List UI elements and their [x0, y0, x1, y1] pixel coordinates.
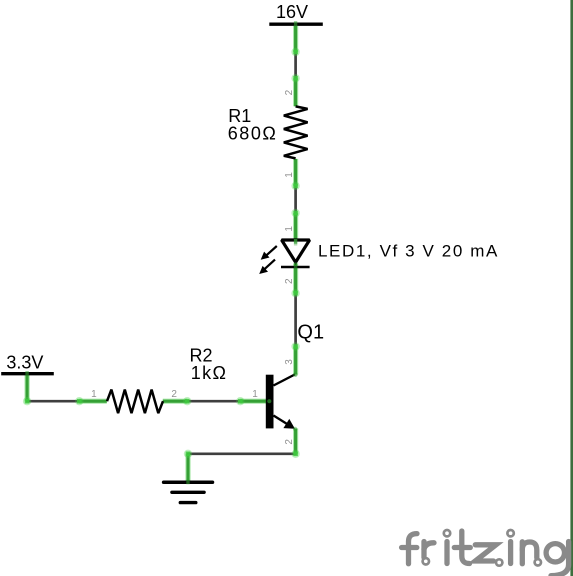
- pin: Q1 pin 2 emitter (green): [293, 429, 298, 454]
- 16V pin terminal overlay: [294, 21, 297, 26]
- pin: LED1 pin 1 anode (green): [293, 213, 298, 239]
- svg-text:2: 2: [284, 89, 295, 95]
- pin: R1 pin 1 (green): [293, 159, 298, 186]
- pin label LED1 pin2 "2": [284, 278, 295, 284]
- svg-text:1: 1: [284, 226, 295, 232]
- svg-text:1kΩ: 1kΩ: [191, 363, 228, 383]
- svg-text:LED1, Vf 3 V 20 mA: LED1, Vf 3 V 20 mA: [318, 241, 499, 260]
- node: junction dots (green endpoints): [23, 48, 300, 458]
- svg-text:3: 3: [284, 359, 295, 365]
- Q1 emitter pin terminal overlay: [293, 427, 297, 431]
- pin label R2 pin2 "2": [171, 389, 177, 400]
- svg-text:2: 2: [284, 278, 295, 284]
- svg-text:16V: 16V: [276, 2, 308, 22]
- wire W3: LED pin2 to Q1 collector: [294, 293, 297, 346]
- pin label Q1 pin2 "2": [284, 439, 295, 445]
- label Q1: [297, 322, 324, 344]
- pin: 3.3V supply pin (green): [25, 375, 30, 401]
- LED1 pin terminal overlays (green over symbol): [294, 239, 297, 269]
- power label 16V: [276, 2, 308, 22]
- ground symbol: [164, 482, 213, 502]
- pin label R2 pin1 "1": [91, 389, 97, 400]
- transistor Q1 (NPN): [266, 374, 295, 428]
- resistor R1 (vertical zigzag): [284, 106, 308, 158]
- Q1 collector pin terminal overlay: [293, 372, 297, 376]
- svg-text:2: 2: [284, 439, 295, 445]
- pin label Q1 pin3 "3": [284, 359, 295, 365]
- power label 3.3V: [6, 352, 43, 372]
- label R2 value: [190, 346, 228, 384]
- svg-text:3.3V: 3.3V: [6, 352, 43, 372]
- pin label LED1 pin1 "1": [284, 226, 295, 232]
- resistor R2 (horizontal zigzag): [107, 390, 163, 414]
- pin: R2 pin 2 (green): [163, 399, 187, 404]
- pin: R1 pin 2 (green): [293, 78, 298, 106]
- pin label R1 pin1 "1": [284, 172, 295, 178]
- power symbol 16V bar: [269, 23, 323, 26]
- pin: LED1 pin 2 cathode (green): [293, 264, 298, 294]
- ground pin terminal overlay: [186, 480, 189, 484]
- pin label Q1 pin1 "1": [252, 389, 258, 400]
- pin: 16V supply pin (green): [293, 26, 298, 52]
- LED LED1 (triangle + cathode bar): [281, 240, 310, 267]
- pin: Q1 pin 1 base (green): [240, 399, 269, 404]
- pin: Q1 pin 3 collector (green): [293, 347, 298, 375]
- wire W5: 3.3V corner to R2 pin1 (horizontal): [27, 400, 79, 403]
- wire W4: Q1 emitter to ground (horizontal): [188, 452, 296, 455]
- fritzing watermark logo: [402, 531, 569, 576]
- label R1 value: [228, 106, 277, 143]
- pin: R2 pin 1 (green): [79, 399, 107, 404]
- wire W2: R1 pin1 to LED pin1: [294, 186, 297, 213]
- LED1 emission arrows: [259, 246, 277, 274]
- power symbol 3.3V bar: [1, 372, 54, 375]
- fritzing logo rings: [423, 530, 541, 566]
- label LED1 value: [318, 241, 499, 260]
- svg-text:1: 1: [91, 389, 97, 400]
- svg-text:1: 1: [252, 389, 258, 400]
- svg-text:680Ω: 680Ω: [228, 124, 277, 144]
- wire W6: R2 pin2 to Q1 base: [187, 400, 240, 403]
- pin: ground pin (green): [185, 454, 190, 481]
- right green border: [570, 0, 573, 576]
- svg-text:Q1: Q1: [297, 322, 324, 344]
- 3.3V pin terminal overlay: [25, 371, 28, 376]
- svg-text:2: 2: [171, 389, 177, 400]
- svg-text:1: 1: [284, 172, 295, 178]
- wire W1: 16V bar to R1 pin2: [294, 52, 297, 78]
- pin label R1 pin2 "2": [284, 89, 295, 95]
- Q1 base pin terminal overlay: [267, 399, 271, 403]
